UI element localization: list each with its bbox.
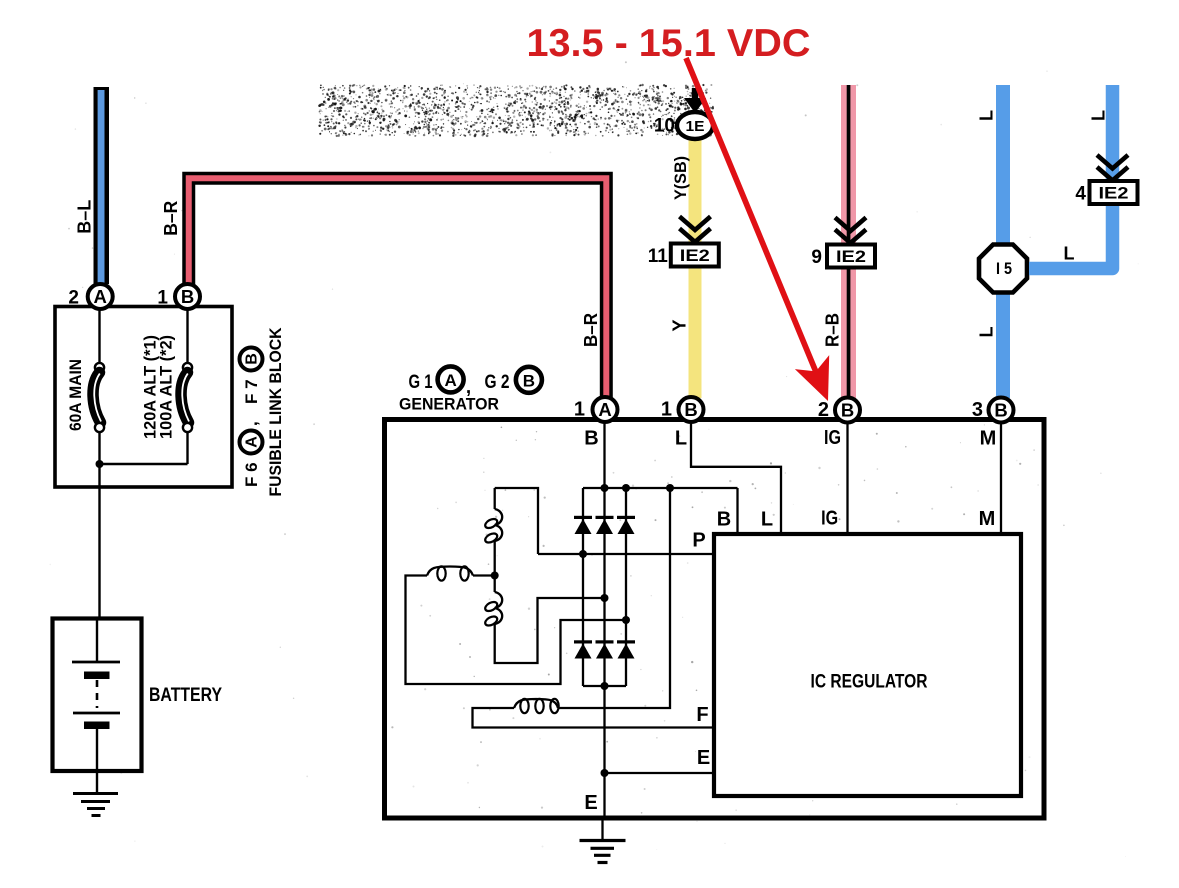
connector 10 (1E oval): [654, 112, 713, 139]
label F6 A, F7 B: [240, 348, 263, 488]
connector 2 A: [68, 284, 112, 309]
diode D6: [617, 640, 635, 643]
junction dot phase3: [622, 616, 630, 624]
svg-text:IG: IG: [824, 427, 841, 449]
svg-text:L: L: [976, 327, 996, 338]
connector 1 B: [157, 284, 200, 309]
wire F to regulator: [473, 708, 715, 728]
wire B-L (blue, battery to fusible link): [94, 87, 110, 284]
diode D3: [617, 516, 635, 519]
generator ground: [580, 841, 626, 863]
connector I5 octagon: [979, 245, 1027, 293]
rotor coil: [514, 699, 558, 708]
svg-text:B: B: [841, 400, 854, 421]
connector 11 IE2: [671, 244, 719, 267]
svg-text:3: 3: [972, 399, 983, 421]
svg-text:GENERATOR: GENERATOR: [399, 395, 499, 414]
svg-text:FUSIBLE LINK BLOCK: FUSIBLE LINK BLOCK: [266, 327, 285, 497]
svg-text:B: B: [994, 400, 1007, 421]
fusible link block box: [55, 307, 232, 488]
svg-text:E: E: [697, 747, 710, 769]
svg-text:IC REGULATOR: IC REGULATOR: [811, 671, 928, 692]
svg-text:B–L: B–L: [75, 200, 95, 234]
stator neutral junction: [491, 572, 499, 580]
terminal 2 B: [818, 398, 860, 423]
junction dots top rail: [601, 484, 609, 492]
fuse 60A MAIN: [93, 309, 104, 487]
diode D1: [574, 516, 592, 519]
svg-text:10: 10: [654, 115, 675, 136]
svg-text:B: B: [243, 353, 260, 365]
svg-text:R–B: R–B: [822, 313, 842, 347]
svg-text:BATTERY: BATTERY: [149, 685, 222, 706]
stator stem coil 1: [494, 488, 496, 509]
svg-text:IE2: IE2: [1099, 184, 1129, 203]
wire R-B (pink with black core): [841, 85, 856, 398]
svg-text:F 7: F 7: [242, 379, 261, 404]
svg-text:F: F: [696, 704, 708, 726]
svg-text:B–R: B–R: [161, 201, 181, 236]
svg-text:I 5: I 5: [996, 259, 1012, 278]
svg-text:A: A: [94, 286, 107, 307]
svg-text:100A ALT (*2): 100A ALT (*2): [157, 335, 175, 439]
svg-text:1: 1: [157, 287, 168, 308]
wire B main vertical: [603, 422, 605, 818]
junction dot E: [601, 769, 609, 777]
svg-text:Y(SB): Y(SB): [671, 156, 690, 200]
junction dot P: [579, 550, 587, 558]
svg-text:B: B: [584, 428, 598, 450]
wire P to regulator: [538, 553, 714, 555]
svg-text:1: 1: [574, 399, 585, 421]
svg-text:E: E: [584, 792, 597, 814]
generator box: [385, 420, 1045, 819]
svg-text:G 1: G 1: [409, 372, 433, 393]
diode column right: [625, 488, 627, 686]
wire Y (yellow): [689, 136, 702, 398]
wire L right (blue, to I5): [1029, 85, 1113, 269]
black arrow into 1E: [684, 88, 706, 113]
svg-text:A: A: [598, 399, 611, 420]
battery box: [53, 619, 142, 772]
wire E internal: [605, 772, 715, 774]
diode D5: [596, 640, 614, 643]
wire IG internal: [846, 424, 848, 535]
svg-text:B: B: [684, 399, 697, 420]
stator stem coil 2: [495, 592, 503, 624]
svg-text:B–R: B–R: [581, 313, 601, 347]
svg-text:4: 4: [1075, 183, 1086, 204]
connector 9 IE2: [827, 245, 875, 268]
svg-text:P: P: [692, 530, 705, 552]
chevrons right L wire: [1097, 155, 1128, 169]
stator phase3 wire and coil: [473, 574, 495, 576]
svg-text:13.5 - 15.1 VDC: 13.5 - 15.1 VDC: [527, 22, 811, 65]
svg-text:1E: 1E: [686, 118, 705, 135]
junction dot bottom rail: [601, 682, 609, 690]
svg-text:L: L: [1088, 110, 1108, 121]
svg-text:L: L: [761, 509, 773, 531]
svg-text:L: L: [1064, 243, 1075, 263]
svg-text:11: 11: [648, 246, 669, 267]
diode D2: [596, 516, 614, 519]
svg-text:A: A: [444, 371, 456, 390]
svg-text:A: A: [243, 436, 260, 448]
rotor feed wire: [559, 488, 670, 708]
stator phase1 arm: [495, 488, 538, 554]
chevrons R-B wire: [835, 218, 866, 232]
svg-text:Y: Y: [669, 319, 689, 331]
wire L left (blue): [996, 85, 1010, 398]
label G1 A , G2 B: [409, 366, 542, 397]
svg-text:M: M: [979, 508, 996, 530]
wire B-R (black outline, red core): [189, 178, 607, 398]
svg-text:B: B: [181, 286, 194, 307]
rectifier top rail: [583, 487, 738, 489]
terminal 1 B: [661, 397, 704, 422]
svg-text:,: ,: [242, 421, 261, 426]
wire B sense to regulator: [736, 488, 738, 534]
svg-text:2: 2: [818, 399, 829, 421]
junction fusible block: [96, 460, 104, 468]
IC regulator box: [714, 534, 1021, 796]
fuse 120A/100A ALT: [100, 309, 193, 464]
connector 4 IE2: [1090, 181, 1138, 204]
halftone scan band: [318, 84, 714, 137]
svg-text:L: L: [675, 428, 687, 450]
svg-text:M: M: [980, 428, 997, 450]
wire E below generator: [601, 818, 603, 840]
battery symbol: [72, 620, 120, 771]
svg-text:B: B: [523, 371, 535, 390]
chevrons yellow wire: [680, 217, 711, 231]
svg-text:G 2: G 2: [485, 372, 510, 393]
svg-text:IE2: IE2: [680, 246, 710, 265]
terminal 3 B: [972, 398, 1014, 423]
svg-text:1: 1: [661, 399, 672, 421]
svg-text:L: L: [976, 110, 996, 121]
svg-text:IE2: IE2: [836, 247, 866, 266]
svg-text:2: 2: [68, 287, 79, 308]
wire fusible block to battery: [98, 487, 100, 618]
svg-text:9: 9: [811, 247, 822, 268]
wire L internal: [691, 422, 781, 534]
wire M internal: [1000, 424, 1002, 535]
junction dot phase2: [601, 594, 609, 602]
rectifier bottom rail: [583, 685, 626, 687]
svg-text:F 6: F 6: [242, 462, 261, 487]
svg-text:60A MAIN: 60A MAIN: [66, 359, 85, 431]
svg-text:B: B: [717, 509, 731, 531]
battery ground: [73, 771, 118, 816]
svg-text:IG: IG: [821, 508, 838, 530]
annotation arrow (red): [686, 58, 829, 401]
diode column left: [582, 488, 584, 686]
diode D4: [574, 640, 592, 643]
terminal 1 A: [574, 397, 618, 422]
